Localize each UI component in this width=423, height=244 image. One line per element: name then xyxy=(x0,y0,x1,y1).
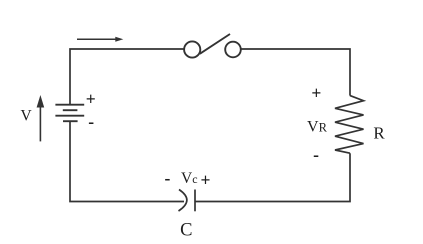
svg-text:-: - xyxy=(313,145,319,165)
svg-text:C: C xyxy=(180,221,192,241)
svg-text:-: - xyxy=(164,168,170,188)
svg-text:-: - xyxy=(88,111,94,131)
wire top-right segment xyxy=(241,49,350,96)
switch S left contact xyxy=(184,41,200,57)
svg-text:V: V xyxy=(20,108,32,125)
wire top-left segment xyxy=(70,49,184,104)
current direction arrow xyxy=(77,37,123,42)
capacitor C curved plate xyxy=(179,190,187,212)
svg-text:R: R xyxy=(373,123,385,142)
battery V plates xyxy=(55,105,84,122)
wire left lower segment xyxy=(70,121,184,201)
svg-text:+: + xyxy=(86,89,96,109)
capacitor C straight plate xyxy=(194,190,196,212)
resistor R zigzag xyxy=(335,96,364,154)
switch S right contact xyxy=(225,42,241,58)
V source arrow xyxy=(37,95,45,141)
svg-text:Vc: Vc xyxy=(181,170,198,187)
wire right lower segment xyxy=(195,153,350,201)
switch S lever arm xyxy=(200,34,230,54)
svg-text:+: + xyxy=(311,83,321,103)
svg-text:VR: VR xyxy=(307,118,328,135)
svg-text:+: + xyxy=(201,170,211,190)
